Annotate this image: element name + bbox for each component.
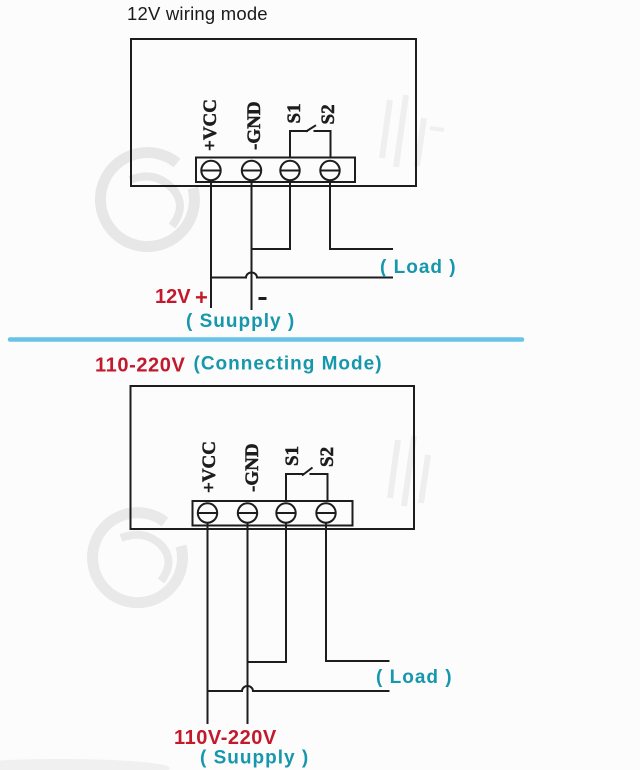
controller box U2 (110-220V mode) — [131, 386, 415, 529]
wire S1 to GND node — [252, 181, 291, 250]
wire S2 to load — [330, 181, 393, 250]
terminal screw 1 (+VCC) — [201, 161, 220, 180]
watermark swirl logo mid-left — [93, 513, 183, 603]
wire supply plus to load with hop over GND — [211, 273, 393, 278]
svg-text:+: + — [195, 285, 208, 310]
svg-text:S2: S2 — [317, 447, 338, 467]
wire S1 to GND node (U2) — [248, 523, 287, 662]
svg-text:+VCC: +VCC — [200, 99, 221, 151]
relay contact switch K1 between S1 and S2 — [290, 131, 308, 158]
svg-text:S1: S1 — [284, 103, 305, 123]
wire +VCC down to mains supply — [207, 523, 209, 724]
svg-text:-GND: -GND — [244, 101, 265, 150]
terminal strip TB2 — [193, 501, 353, 526]
svg-text:( Suupply ): ( Suupply ) — [186, 311, 295, 332]
relay contact switch K2 between S1 and S2 — [286, 474, 304, 501]
terminal screw 4 (S2) U2 — [316, 503, 335, 522]
svg-text:S1: S1 — [282, 446, 303, 466]
terminal screw 3 (S1) — [280, 161, 299, 180]
svg-text:( Load ): ( Load ) — [376, 667, 453, 688]
section divider cyan line — [10, 337, 522, 342]
watermark streaks top-right — [382, 95, 444, 167]
wire mains to load with hop over GND (U2) — [208, 686, 390, 691]
svg-text:12V wiring mode: 12V wiring mode — [127, 3, 268, 24]
svg-text:+VCC: +VCC — [199, 441, 220, 493]
terminal screw 1 (+VCC) U2 — [198, 503, 217, 522]
terminal screw 4 (S2) — [320, 161, 339, 180]
wire -GND down to supply minus — [251, 181, 253, 311]
wire -GND down to mains supply — [247, 523, 249, 724]
svg-text:(Connecting Mode): (Connecting Mode) — [194, 354, 383, 375]
terminal screw 3 (S1) U2 — [276, 503, 295, 522]
svg-text:( Suupply ): ( Suupply ) — [200, 748, 309, 769]
watermark swirl logo top-left — [100, 153, 194, 247]
svg-text:110-220V: 110-220V — [95, 355, 185, 377]
watermark smudge bottom-left — [0, 759, 170, 770]
wire +VCC down to supply plus — [210, 181, 212, 309]
wire S2 to load (U2) — [326, 523, 390, 661]
svg-text:S2: S2 — [318, 104, 339, 124]
label minus — [259, 297, 267, 300]
controller box U1 (12V mode) — [131, 39, 416, 186]
terminal screw 2 (-GND) — [242, 161, 261, 180]
svg-text:-GND: -GND — [242, 443, 263, 492]
svg-text:( Load ): ( Load ) — [380, 257, 457, 278]
watermark streaks right-middle — [390, 436, 428, 506]
svg-text:12V: 12V — [155, 286, 191, 308]
terminal screw 2 (-GND) U2 — [238, 503, 257, 522]
terminal strip TB1 — [196, 158, 355, 183]
svg-text:110V-220V: 110V-220V — [174, 727, 277, 749]
